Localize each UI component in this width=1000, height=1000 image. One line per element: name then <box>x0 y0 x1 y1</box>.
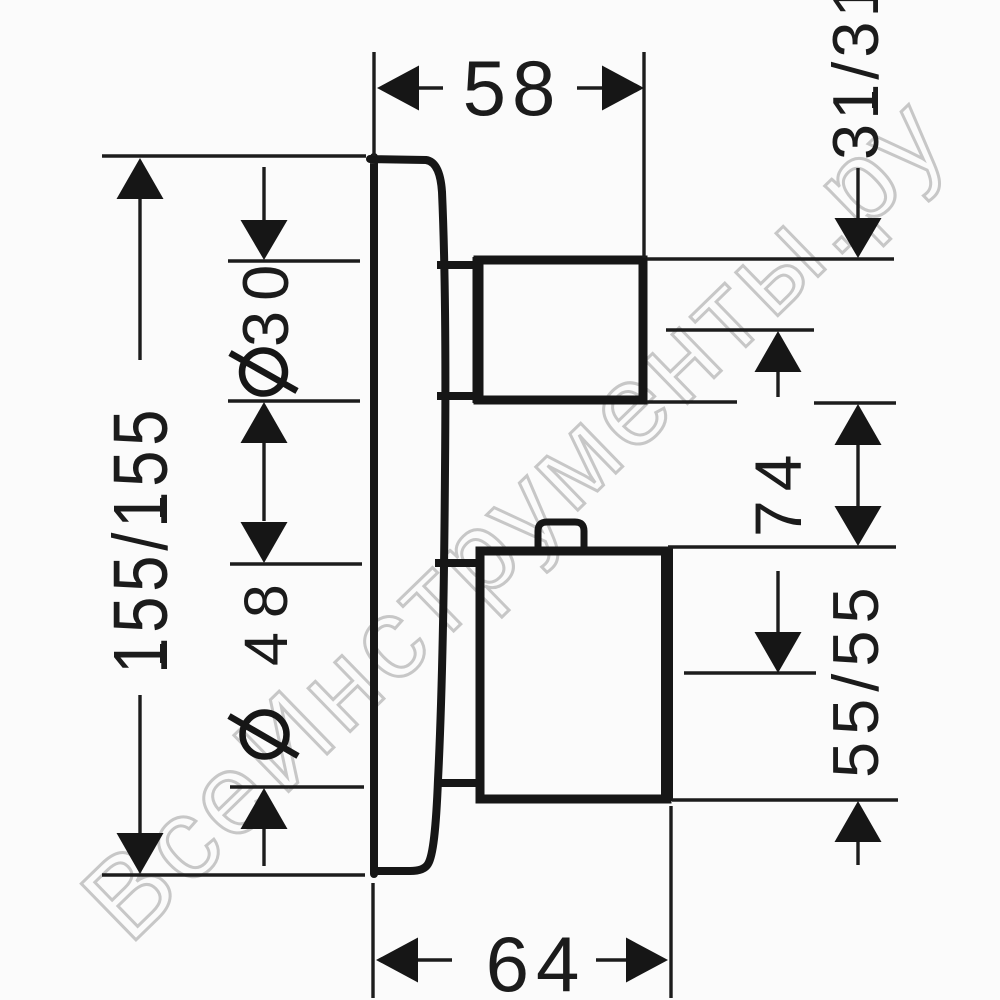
svg-text:155/155: 155/155 <box>98 405 184 674</box>
extension line right of 58 dim <box>642 52 645 258</box>
lower neck (thermostat collar) <box>435 559 480 567</box>
upper neck (cartridge collar) <box>437 261 478 269</box>
shared shaft between 31/31 and 55/55 <box>856 445 859 506</box>
dim 74 top arrow shaft <box>776 372 779 397</box>
dim 55/55 bottom shaft <box>856 842 859 865</box>
svg-text:30: 30 <box>229 255 302 347</box>
dim 155/155 bottom shaft <box>138 695 141 834</box>
dim d48 top arrow <box>241 522 288 563</box>
dim d48 lower tick <box>230 785 364 788</box>
dim 74 top arrow <box>755 331 802 372</box>
dim 155/155 top shaft <box>138 199 141 360</box>
svg-text:74: 74 <box>741 446 815 537</box>
dim 58 left arrow <box>377 66 419 111</box>
dim 74 bottom shaft <box>776 571 779 633</box>
lower handle right edge bar <box>661 547 673 801</box>
lower neck bottom edge <box>435 779 480 787</box>
ref line handle top y259 <box>647 257 894 260</box>
dim d30 top arrow <box>241 220 288 260</box>
center tick upper handle y330 <box>666 328 814 331</box>
center tick lower handle y673 <box>684 671 816 674</box>
lower handle (thermostat knob) <box>480 551 667 799</box>
dim 31/31 top arrow <box>835 218 882 258</box>
ref line handle bottom y402 right part <box>814 401 896 404</box>
ref line handle bottom y402 left part <box>647 400 737 403</box>
dim d30 bottom arrow <box>241 402 288 443</box>
serif foot of first 1 in 155/155 <box>160 644 167 663</box>
reference baseline y875 <box>102 873 365 876</box>
dim 58 left shaft <box>419 86 443 89</box>
dim d30 upper tick <box>228 259 360 262</box>
extension line left of 58 dim <box>372 52 375 156</box>
dim 64 right arrow <box>626 938 668 983</box>
ref line lower handle top y547 <box>668 545 896 548</box>
dim d30 top shaft <box>262 167 265 221</box>
dim d30 lower tick <box>228 399 360 402</box>
dim d48 diameter symbol <box>229 713 298 757</box>
dim 64 left shaft <box>418 958 452 961</box>
serif foot of second 1 in 155/155 <box>160 498 167 517</box>
svg-text:64: 64 <box>486 920 587 1000</box>
reference line top face y156 <box>102 154 366 157</box>
dim 155/155 bottom arrow <box>117 833 164 874</box>
serif foot of lower 1 in 31/31 <box>872 92 878 108</box>
svg-text:58: 58 <box>463 44 562 132</box>
shared shaft between d30 and d48 <box>262 443 265 521</box>
dim d30 diameter symbol <box>230 351 297 394</box>
upper neck bottom edge <box>437 392 478 400</box>
dim d48 upper tick <box>230 562 362 565</box>
upper handle (diverter knob) <box>478 260 643 400</box>
dim 31/31 top shaft <box>856 168 859 219</box>
svg-text:31/31: 31/31 <box>819 0 892 160</box>
dim d48 bottom shaft <box>262 829 265 866</box>
extension line right of 64 dim <box>669 806 672 998</box>
dim d48 bottom arrow <box>241 788 288 829</box>
svg-text:48: 48 <box>232 570 300 666</box>
ref line lower handle bottom y800 <box>672 798 898 801</box>
dim 64 left arrow <box>376 938 418 983</box>
dim 31/31 bottom arrow <box>835 404 882 445</box>
dim 58 right shaft <box>577 86 603 89</box>
dim 55/55 bottom arrow <box>835 801 882 842</box>
dim 58 right arrow <box>602 66 644 111</box>
svg-text:ВсеИнструменты.ру: ВсеИнструменты.ру <box>58 70 972 964</box>
dim 64 right shaft <box>596 958 627 961</box>
plate (wall escutcheon, side profile) <box>370 157 445 874</box>
extension line left of 64 dim <box>371 883 374 998</box>
dim 74 bottom arrow <box>755 632 802 673</box>
upper handle left edge bar <box>473 257 484 403</box>
tab on top of lower handle <box>538 522 584 551</box>
svg-text:55/55: 55/55 <box>819 580 892 778</box>
dim 55/55 top arrow <box>835 506 882 546</box>
dim 155/155 top arrow <box>117 158 164 199</box>
